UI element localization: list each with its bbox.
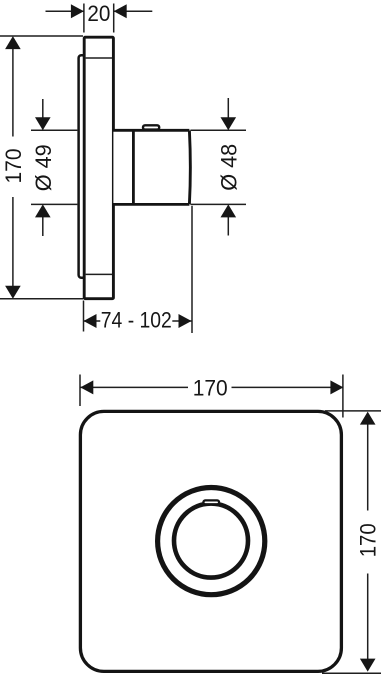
dim 170 front-top: left arrowhead	[80, 380, 93, 394]
dim 74-102: left extension line	[83, 301, 85, 332]
dim d48: up arrowhead	[221, 204, 237, 217]
dim 74-102: left arrowhead	[84, 314, 97, 328]
dim 74-102: right arrowhead	[179, 314, 192, 328]
handle inner ring (front)	[174, 504, 248, 578]
plate face lower edge line	[86, 273, 112, 275]
handle top line	[113, 129, 190, 132]
handle grip marker (front)	[203, 500, 219, 504]
svg-text:20: 20	[87, 1, 110, 26]
dim d49: lower tail line	[42, 216, 44, 236]
dim 170 side: top extension line	[0, 35, 83, 37]
dim 170 front-right: dimension line lower segment	[367, 574, 369, 661]
dim d48: down arrowhead	[221, 117, 237, 130]
dim 20: left-pointing arrowhead	[114, 4, 127, 18]
dim 20: right-pointing arrowhead	[71, 4, 84, 18]
dim 170 front-right: dimension line upper segment	[367, 423, 369, 511]
svg-text:74 - 102: 74 - 102	[101, 308, 172, 333]
escutcheon plate (side profile)	[84, 37, 113, 299]
dim d48: upper tail line	[227, 98, 229, 119]
dim d48: top extension line	[190, 129, 246, 131]
dim 170 front-right: down arrowhead	[360, 659, 376, 672]
dim 74-102: label background	[100, 309, 172, 329]
dim d48: bottom extension line	[190, 203, 246, 205]
svg-text:170: 170	[1, 149, 26, 184]
dim 170 side: up arrowhead	[5, 36, 21, 49]
dim 170 side: dimension line upper segment	[12, 46, 14, 137]
plate face upper edge line	[86, 57, 112, 59]
dim d49: down arrowhead	[35, 117, 51, 130]
svg-text:Ø 48: Ø 48	[217, 144, 242, 191]
handle outer face (right edge, slightly bowed)	[188, 131, 192, 205]
dim 170 side: down arrowhead	[5, 286, 21, 299]
dim 170 front-top: right arrowhead	[330, 380, 343, 394]
handle outer ring (front)	[158, 487, 265, 594]
handle body fill	[113, 130, 190, 204]
handle step line (collar/grip)	[132, 130, 135, 204]
dim 170 side: bottom extension line	[0, 298, 83, 300]
dim 20: left tail line	[46, 10, 84, 12]
dim 20: right tail line	[114, 10, 153, 12]
dim 170 front-top: left extension line	[79, 375, 81, 407]
dim d49: bottom extension line	[31, 203, 77, 205]
front plate (rounded square)	[80, 411, 341, 671]
dim 170 front-right: up arrowhead	[360, 412, 376, 425]
dim 74-102: dimension line	[84, 320, 192, 322]
dim d49: top extension line	[31, 129, 77, 131]
dim d49: up arrowhead	[35, 204, 51, 217]
dim 20: right extension line	[113, 4, 115, 33]
handle top button	[143, 125, 159, 129]
svg-text:170: 170	[193, 375, 228, 400]
dim 170 side: dimension line lower segment	[12, 197, 14, 288]
handle bottom line	[113, 203, 190, 206]
dim 170 front-top: label background	[188, 378, 232, 398]
dim 170 front-top: dimension line	[80, 386, 343, 388]
svg-text:Ø 49: Ø 49	[31, 144, 56, 191]
dim d48: lower tail line	[227, 216, 229, 236]
back flange (wall side)	[79, 55, 86, 278]
dim 170 front-top: right extension line	[342, 375, 344, 418]
dim 74-102: right extension line	[191, 206, 193, 333]
svg-text:170: 170	[356, 523, 381, 557]
dim 170 front-right: bottom extension line	[322, 672, 381, 674]
dim 170 front-right: top extension line	[325, 410, 381, 412]
dim d49: upper tail line	[42, 99, 44, 119]
dim 20: left extension line	[83, 4, 85, 33]
